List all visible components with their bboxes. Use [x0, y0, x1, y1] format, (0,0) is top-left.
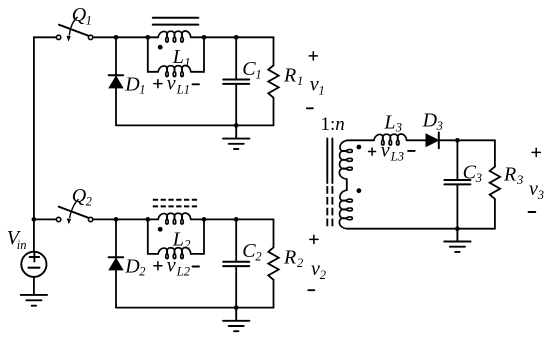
svg-text:2: 2 [86, 195, 92, 209]
node: L2 right [202, 217, 207, 222]
svg-text:D: D [422, 110, 438, 132]
svg-text:3: 3 [436, 119, 443, 133]
svg-text:C: C [242, 240, 256, 262]
inductor L2 top winding [158, 213, 191, 224]
voltage source Vin [21, 219, 46, 295]
inductor L1 top winding [158, 31, 191, 42]
wire: bottom rail of section 1 [116, 124, 274, 126]
svg-text:1: 1 [139, 83, 145, 97]
svg-text:2: 2 [139, 265, 145, 279]
diode D1 [109, 37, 124, 125]
svg-text:L2: L2 [176, 265, 190, 279]
wire: bottom rail of output 3 [347, 228, 495, 230]
transformer winding upper [339, 141, 352, 179]
node: L1 left [145, 35, 150, 40]
wire: left vertical from top-left corner down to Vin node [34, 37, 56, 219]
svg-text:R: R [503, 164, 516, 186]
label + v2 - output 2 [310, 235, 318, 243]
svg-text:2: 2 [184, 238, 190, 252]
svg-text:3: 3 [475, 171, 482, 185]
svg-text:L1: L1 [176, 83, 190, 97]
wire: winding top to L3 [347, 139, 374, 141]
ground at Vin [21, 295, 47, 306]
svg-text:D: D [124, 255, 140, 277]
inductor L1 bottom winding loop [148, 37, 204, 76]
node: D1 anode junction [114, 35, 119, 40]
transformer core line right (solid top, dashed bottom) [331, 139, 333, 227]
core bars of L1 (solid) [153, 18, 199, 25]
node: C2 bottom / ground [234, 305, 239, 310]
node: L2 left [145, 217, 150, 222]
svg-text:v: v [529, 178, 538, 200]
core bars of L2 (dashed) [153, 200, 199, 207]
inductor L2 bottom winding loop [148, 219, 204, 258]
label + vL3 - [369, 148, 376, 155]
wire: bottom rail of section 2 [116, 307, 274, 309]
node: output 3 top [455, 138, 460, 143]
wire: L3 to D3 [407, 139, 426, 141]
svg-text:2: 2 [320, 268, 326, 282]
ground output 3 [444, 229, 470, 252]
switch Q1 [56, 17, 92, 41]
svg-text:v: v [310, 74, 319, 96]
svg-text:L: L [383, 111, 395, 133]
ground section 1 [223, 125, 249, 149]
label + v3 - output 3 [532, 148, 540, 156]
ground section 2 [223, 308, 249, 332]
wire: top rail section 1 right part [191, 36, 274, 38]
svg-text:C: C [242, 58, 256, 80]
svg-text:C: C [463, 162, 477, 184]
polarity dot winding lower [357, 188, 362, 193]
wire: top rail of section 1 [93, 36, 158, 38]
diode D3 [426, 132, 439, 148]
svg-text:3: 3 [537, 188, 544, 202]
svg-text:1: 1 [184, 56, 190, 70]
svg-text:L: L [172, 46, 184, 68]
svg-text:D: D [124, 73, 140, 95]
resistor R3 [490, 140, 500, 228]
svg-text:2: 2 [297, 256, 303, 270]
wire: top rail section 2 right part [191, 218, 274, 220]
svg-text:L: L [172, 228, 184, 250]
svg-text:2: 2 [255, 250, 261, 264]
svg-text:v: v [381, 139, 390, 161]
transformer core line left (solid top, dashed bottom) [326, 139, 328, 227]
svg-text:in: in [17, 238, 27, 252]
svg-text:1: 1 [297, 74, 303, 88]
svg-text:1: 1 [86, 13, 92, 27]
label + vL2 - [154, 262, 162, 270]
svg-text:L3: L3 [390, 149, 404, 163]
capacitor C2 [223, 219, 249, 307]
wire: D3 to output node and R3 corner [439, 139, 495, 141]
node: D2 anode junction [114, 217, 119, 222]
node: C2 top [234, 217, 239, 222]
resistor R2 [268, 219, 278, 307]
wire: top rail of section 2 [93, 218, 158, 220]
node: C1 top [234, 35, 239, 40]
svg-text:1: 1 [319, 84, 325, 98]
svg-text:v: v [167, 255, 176, 277]
capacitor C3 [444, 140, 470, 228]
resistor R1 [268, 37, 278, 125]
polarity dot winding upper [357, 145, 362, 150]
switch Q2 [56, 200, 92, 225]
diode D2 [109, 219, 124, 307]
svg-text:1:n: 1:n [321, 114, 345, 135]
svg-text:Q: Q [72, 4, 87, 26]
svg-text:v: v [167, 73, 176, 95]
wire: connector between windings [346, 179, 348, 190]
inductor L3 [374, 134, 407, 145]
node: C3 bottom / ground [455, 226, 460, 231]
svg-text:3: 3 [516, 173, 523, 187]
polarity dot L1 [158, 45, 163, 50]
svg-text:Q: Q [72, 185, 87, 207]
capacitor C1 [223, 37, 249, 125]
svg-text:3: 3 [395, 121, 402, 135]
node: C1 bottom / ground [234, 123, 239, 128]
svg-text:v: v [311, 258, 320, 280]
svg-text:R: R [283, 64, 296, 86]
svg-text:1: 1 [255, 67, 261, 81]
label + v1 - output 1 [309, 52, 317, 60]
wire: Vin node to switch Q2 [34, 218, 56, 220]
label + vL1 - [154, 80, 162, 88]
svg-text:R: R [283, 247, 296, 269]
polarity dot L2 [158, 227, 163, 232]
transformer winding lower [339, 190, 352, 228]
node: L1 right [202, 35, 207, 40]
node: Vin / Q2 junction [32, 217, 37, 222]
